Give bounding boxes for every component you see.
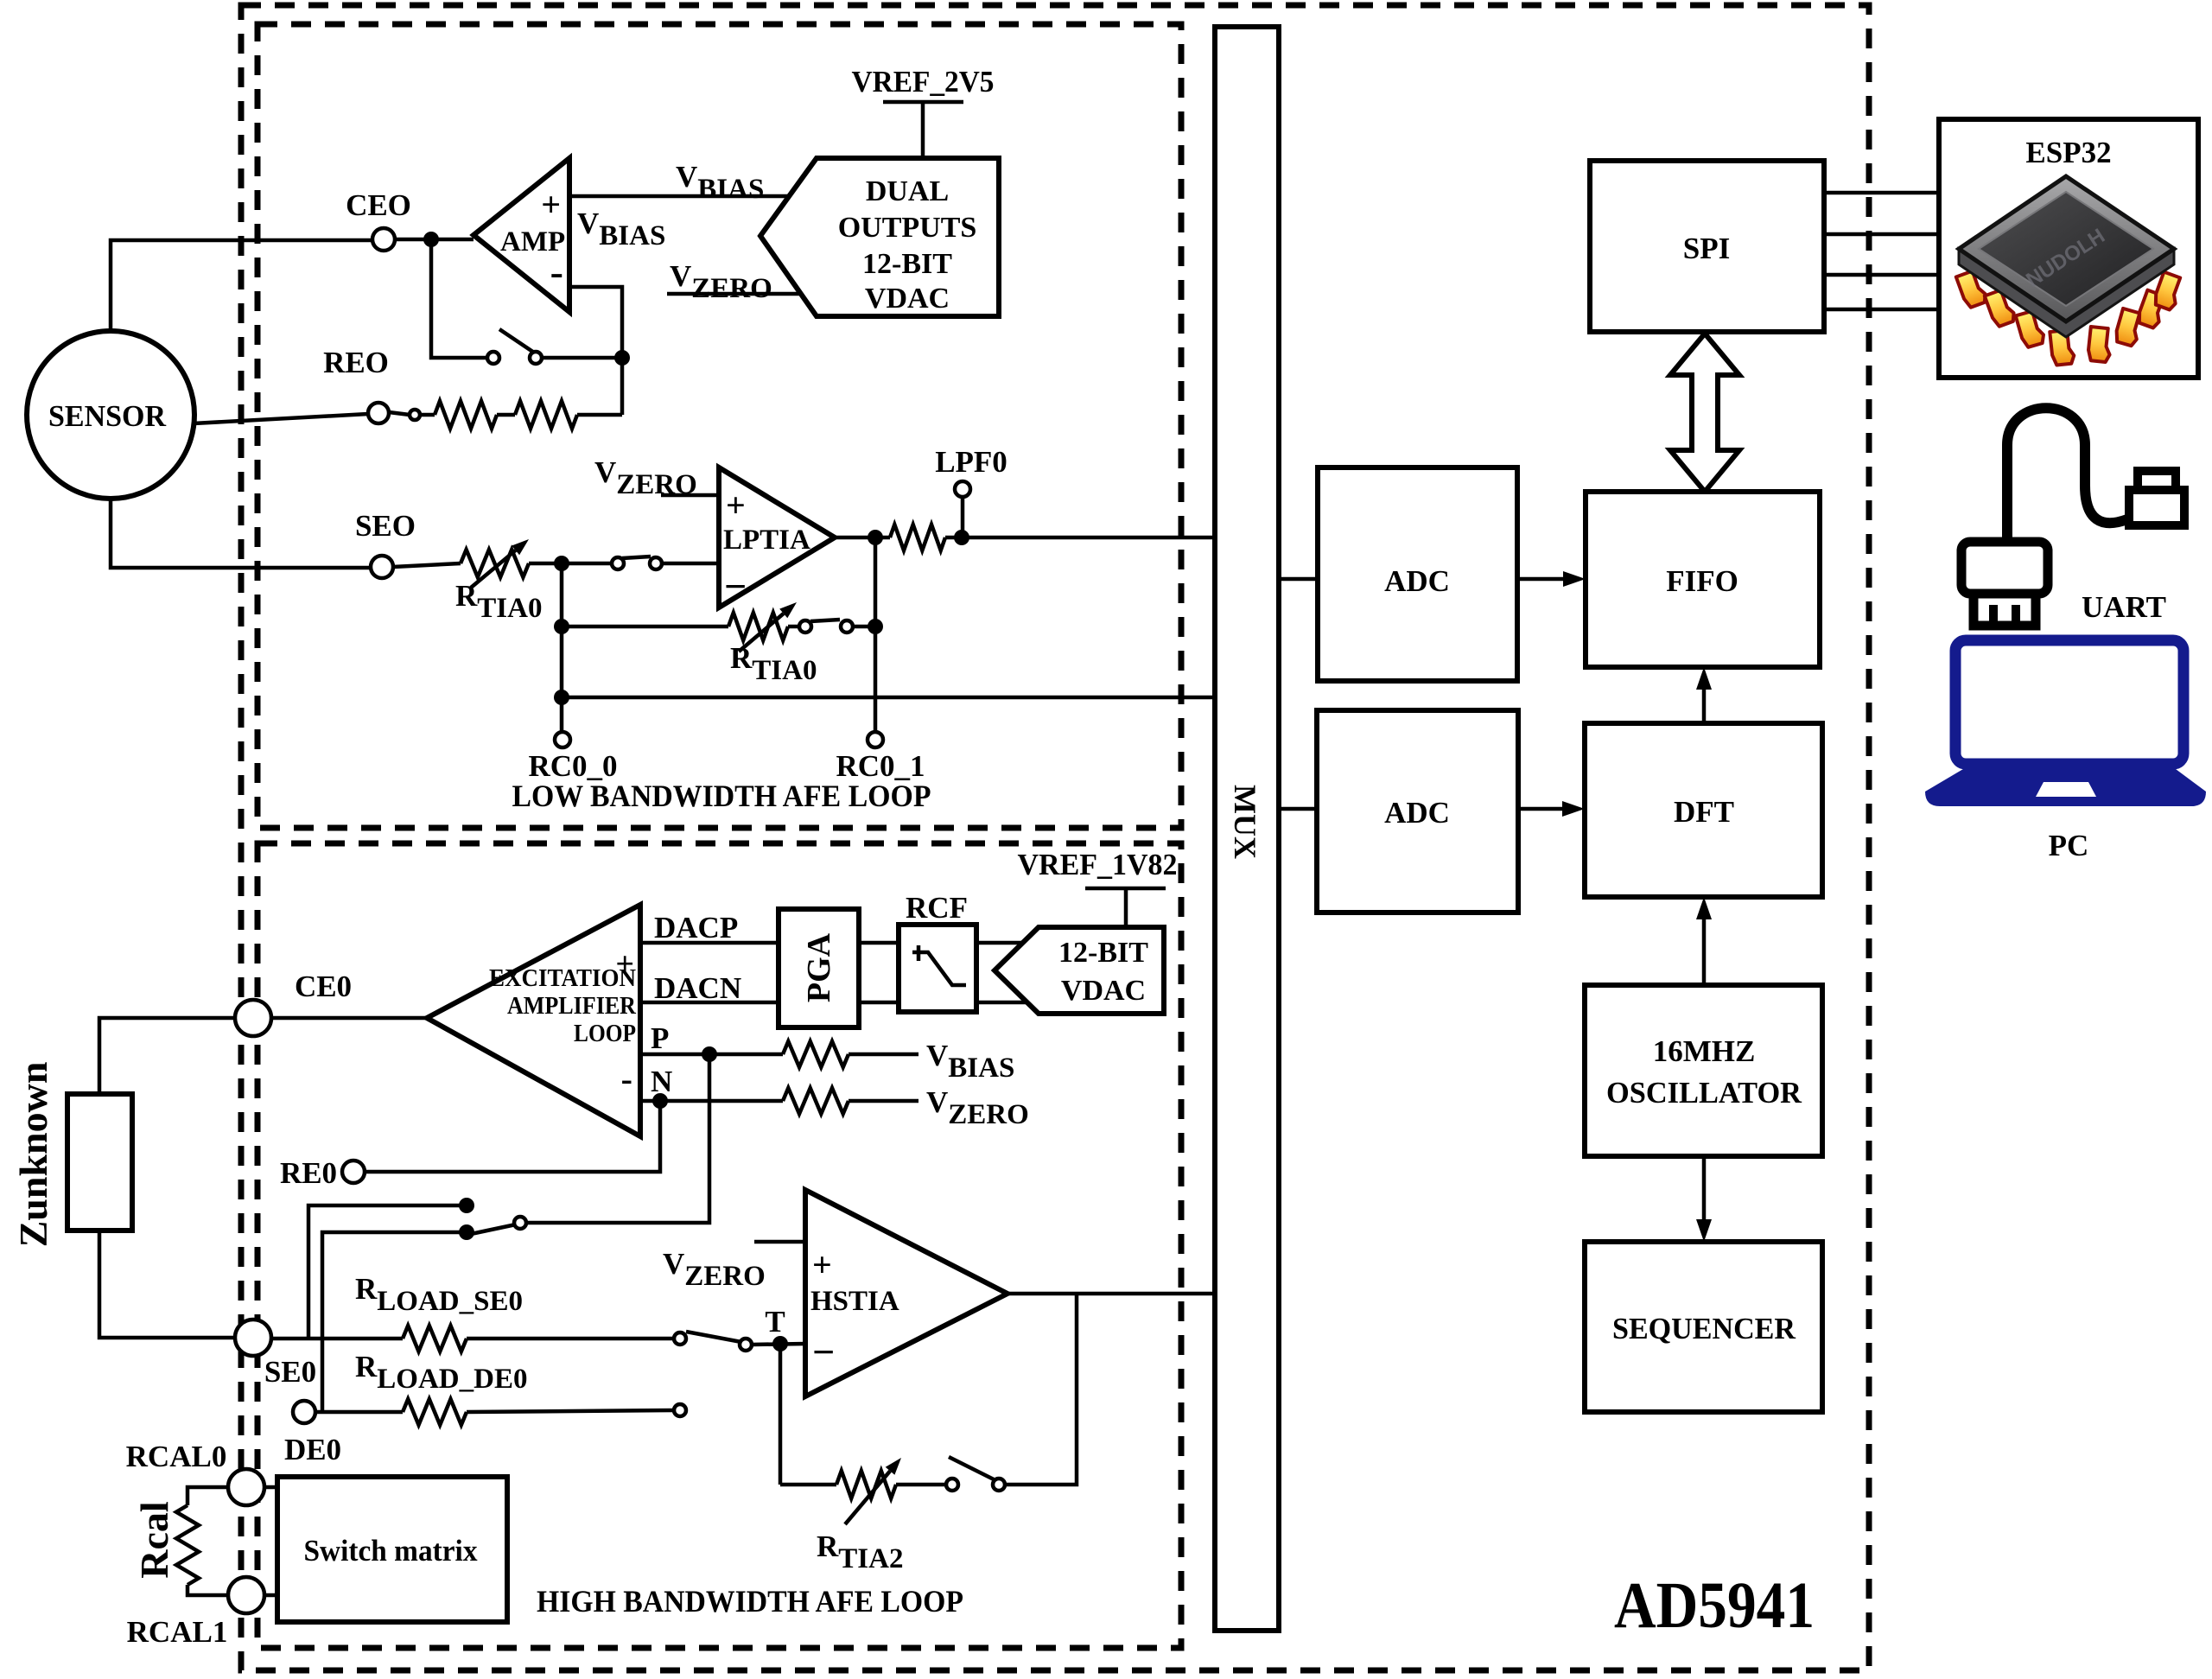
svg-text:LOOP: LOOP (574, 1020, 636, 1047)
wire switch to feedback node (542, 356, 622, 360)
wire P node to selector switch (526, 1054, 709, 1223)
svg-text:LOW BANDWIDTH AFE LOOP: LOW BANDWIDTH AFE LOOP (512, 779, 931, 813)
switch lever T (686, 1332, 741, 1342)
wire VREF_1V82 to VDAC (1124, 888, 1128, 927)
wire T to RTIA2 resistor (780, 1483, 836, 1487)
wire SPI to ESP32 line 2 (1824, 232, 1939, 237)
switch contact AMP fb a (487, 352, 499, 364)
ADC box top (1318, 467, 1517, 681)
wire AMP minus jog (569, 287, 622, 358)
op-amp HSTIA (805, 1190, 1007, 1396)
svg-text:VDAC: VDAC (1061, 975, 1146, 1007)
resistor RLOAD_DE0 (403, 1399, 467, 1425)
wire selector throw1 (308, 1205, 467, 1339)
svg-text:-: - (550, 250, 563, 294)
switch contact selector (514, 1217, 526, 1229)
svg-text:N: N (651, 1065, 672, 1098)
wire CE0 to excitation amp (272, 1016, 427, 1021)
svg-text:−: − (812, 1330, 835, 1374)
port SE0 (235, 1320, 271, 1356)
wire VREF_2V5 to VDAC (921, 102, 925, 158)
svg-text:Zunknown: Zunknown (11, 1062, 55, 1248)
wire selector throw2 (322, 1232, 467, 1412)
16MHz oscillator box (1585, 985, 1822, 1156)
svg-text:DFT: DFT (1674, 795, 1734, 829)
wire LPTIA output (835, 536, 890, 540)
node N (652, 1093, 668, 1109)
switch contact T a (674, 1332, 686, 1345)
PGA box (779, 909, 859, 1027)
wire DE0 to RLOAD_DE0 (315, 1410, 403, 1415)
svg-text:RE0: RE0 (280, 1156, 337, 1190)
op-amp excitation amplifier (427, 905, 640, 1136)
node feedback branch (554, 619, 569, 634)
wire Zunknown bottom to SE0 (99, 1231, 234, 1338)
svg-text:SEO: SEO (355, 509, 416, 543)
terminal RC0_1 (868, 732, 883, 747)
svg-text:SEQUENCER: SEQUENCER (1612, 1312, 1796, 1345)
switch contact REO (410, 410, 420, 420)
port SEO (371, 556, 393, 578)
svg-text:ADC: ADC (1384, 564, 1450, 598)
svg-text:MUX: MUX (1228, 785, 1262, 859)
svg-text:16MHZ: 16MHZ (1653, 1034, 1756, 1068)
wire feedback RTIA0 branch (562, 625, 728, 629)
svg-text:DACP: DACP (654, 911, 738, 944)
svg-text:REO: REO (323, 346, 389, 379)
wire RTIA2 switch to output vertical (1005, 1294, 1077, 1485)
high bandwidth AFE loop dashed border (257, 843, 1181, 1648)
port RE0 (342, 1161, 365, 1183)
wire RTIA0 feedback to switch (788, 625, 799, 629)
wire RCF to VDAC top (976, 941, 1033, 945)
wire AMP feedback left vertical (431, 239, 487, 358)
port RCAL1 (228, 1577, 264, 1613)
wire MUX to ADC bottom (1279, 807, 1317, 811)
switch contact DE0 (674, 1404, 686, 1416)
switch contact RTIA2 b (993, 1479, 1005, 1491)
svg-text:Rcal: Rcal (132, 1501, 176, 1578)
svg-text:RCAL0: RCAL0 (126, 1440, 227, 1473)
node AMP feedback (614, 350, 630, 366)
switch lever RTIA2 (949, 1457, 995, 1480)
wire N output (640, 1099, 783, 1103)
wire Zunknown top to CE0 (99, 1018, 234, 1094)
svg-text:SENSOR: SENSOR (48, 399, 167, 433)
wire switch to output node (853, 625, 875, 629)
FIFO box (1586, 492, 1820, 667)
svg-text:RCF: RCF (906, 891, 968, 925)
AD5941 chip dashed border (241, 5, 1869, 1670)
arrow ADC to FIFO (1517, 577, 1563, 582)
12-bit VDAC dual outputs pentagon (760, 158, 999, 316)
svg-text:LPTIA: LPTIA (723, 525, 810, 556)
switch contact LPTIA in b (650, 557, 662, 569)
svg-text:OSCILLATOR: OSCILLATOR (1606, 1076, 1802, 1110)
ADC box bottom (1317, 710, 1518, 913)
node RC line (554, 690, 569, 705)
UART cable icon (1961, 408, 2184, 626)
terminal RC0_0 (555, 732, 570, 747)
svg-text:T: T (765, 1305, 785, 1339)
svg-text:+: + (812, 1245, 832, 1284)
switch lever REO (389, 412, 410, 415)
ESP32 chip icon (1956, 176, 2184, 366)
svg-text:SPI: SPI (1683, 232, 1730, 265)
wire RCF to VDAC bottom (976, 1001, 1033, 1005)
svg-text:DE0: DE0 (284, 1433, 341, 1466)
svg-text:HIGH BANDWIDTH AFE LOOP: HIGH BANDWIDTH AFE LOOP (537, 1584, 963, 1619)
wire sensor bottom to SEO (111, 497, 371, 568)
wire RLOAD_SE0 to switch (467, 1337, 674, 1341)
svg-text:ADC: ADC (1384, 796, 1450, 830)
12-bit VDAC pentagon high BW (995, 927, 1164, 1014)
svg-text:FIFO: FIFO (1666, 564, 1738, 598)
svg-text:CEO: CEO (346, 188, 411, 222)
op-amp AMP (474, 158, 569, 312)
wire PGA to RCF top (859, 941, 899, 945)
arrow RTIA0 input variable (471, 550, 516, 588)
svg-text:-: - (621, 1059, 632, 1098)
svg-text:LPF0: LPF0 (935, 445, 1007, 479)
wire SPI to ESP32 line 3 (1824, 273, 1939, 277)
arrow oscillator to DFT (1702, 919, 1707, 985)
node selector throw2 (459, 1224, 474, 1240)
svg-text:RCAL1: RCAL1 (127, 1615, 228, 1649)
svg-text:AD5941: AD5941 (1614, 1569, 1815, 1642)
port REO (368, 403, 389, 423)
wire DACN (640, 1001, 779, 1005)
node selector throw1 (459, 1198, 474, 1213)
RCF filter box (899, 925, 976, 1012)
wire MUX to ADC top (1279, 577, 1318, 582)
node T (772, 1336, 788, 1351)
svg-text:DACN: DACN (654, 971, 741, 1005)
node LPTIA output (868, 530, 883, 545)
resistor RTIA2 (836, 1471, 896, 1498)
wire HSTIA output to MUX (1007, 1292, 1215, 1296)
wire RCAL1 to switch matrix (264, 1593, 277, 1598)
wire AMP plus input VBIAS (569, 194, 791, 199)
MUX bar (1215, 27, 1279, 1631)
arrow DFT to FIFO (1702, 690, 1707, 723)
svg-text:PC: PC (2049, 829, 2089, 862)
wire VZERO stub to LPTIA plus (661, 493, 719, 498)
wire VZERO stub into VDAC (667, 292, 804, 296)
wire feedback node down to REO resistor line (620, 358, 625, 415)
port DE0 (293, 1401, 315, 1423)
resistor VZERO (783, 1088, 849, 1114)
wire sensor to REO (194, 414, 368, 423)
wire RTIA2 to switch (896, 1483, 946, 1487)
wire REO segment 1 (420, 413, 435, 417)
svg-text:OUTPUTS: OUTPUTS (838, 212, 977, 244)
svg-text:+: + (541, 185, 561, 224)
selector switch lever (471, 1224, 516, 1234)
wire LPTIA output vertical (874, 537, 878, 732)
wire VZERO resistor out (849, 1099, 918, 1103)
switch lever RTIA0 feedback (810, 620, 840, 621)
wire RE0 to N node (365, 1101, 660, 1172)
svg-text:DUAL: DUAL (866, 175, 949, 207)
resistor Rcal (176, 1505, 199, 1585)
switch contact RTIA0 fb a (799, 620, 811, 633)
svg-text:PGA: PGA (801, 932, 837, 1002)
svg-text:VREF_1V82: VREF_1V82 (1018, 848, 1178, 881)
resistor RTIA0 feedback (728, 613, 788, 640)
switch lever LPTIA input (622, 556, 651, 558)
wire LPF0 to MUX (945, 536, 1215, 540)
svg-text:SE0: SE0 (264, 1355, 316, 1389)
wire Rcal to RCAL1 (188, 1585, 228, 1595)
low bandwidth AFE loop dashed border (257, 24, 1181, 828)
wire SPI to ESP32 line 4 (1824, 308, 1939, 312)
node SEO-RTIA0 (554, 556, 569, 571)
wire VBIAS resistor out (849, 1053, 918, 1057)
resistor RTIA0 input (461, 550, 529, 577)
resistor VBIAS (783, 1041, 849, 1067)
svg-text:ESP32: ESP32 (2025, 136, 2111, 169)
svg-text:UART: UART (2082, 590, 2166, 624)
svg-text:VDAC: VDAC (865, 283, 950, 315)
svg-text:P: P (651, 1021, 669, 1055)
wire SPI to ESP32 line 1 (1824, 191, 1939, 195)
VREF_1V82 power bar (1085, 887, 1166, 891)
port CEO (372, 228, 395, 251)
switch matrix box (277, 1477, 507, 1622)
svg-text:CE0: CE0 (295, 970, 352, 1003)
wire T node down to RTIA2 (779, 1344, 783, 1485)
wire RTIA0 to switch (529, 562, 612, 566)
arrow RTIA2 variable (845, 1471, 890, 1524)
arrow RTIA0 feedback variable (739, 614, 784, 652)
sensor circle (27, 331, 194, 499)
wire DACP (640, 941, 779, 945)
port RCAL0 (228, 1469, 264, 1505)
wire between REO resistors (497, 413, 515, 417)
DFT box (1585, 723, 1822, 897)
wire LPF0 terminal stub (961, 497, 965, 537)
resistor REO feedback 1 (435, 401, 497, 429)
switch lever AMP feedback (499, 329, 539, 356)
SPI box (1590, 161, 1824, 332)
sequencer box (1585, 1242, 1822, 1412)
resistor REO feedback 2 (515, 401, 577, 429)
wire REO resistor to node (577, 413, 622, 417)
switch contact T b (740, 1339, 752, 1351)
VREF_2V5 power bar (883, 100, 963, 105)
wire switch to LPTIA minus (662, 562, 719, 566)
PC laptop icon (1925, 640, 2206, 806)
wire PGA to RCF bottom (859, 1001, 899, 1005)
svg-text:EXCITATION: EXCITATION (489, 964, 636, 992)
switch contact RTIA0 fb b (841, 620, 853, 633)
svg-text:AMPLIFIER: AMPLIFIER (507, 992, 637, 1020)
wire VZERO stub to HSTIA plus (754, 1240, 805, 1244)
svg-text:+: + (726, 486, 746, 525)
svg-text:VREF_2V5: VREF_2V5 (852, 65, 995, 99)
resistor RLOAD_SE0 (403, 1326, 467, 1351)
double arrow SPI FIFO (1670, 334, 1739, 492)
svg-text:12-BIT: 12-BIT (1058, 937, 1148, 969)
resistor LPF0 (890, 525, 945, 550)
wire node to MUX line RC (562, 696, 1215, 700)
svg-text:−: − (724, 564, 747, 608)
switch contact LPTIA in a (612, 557, 624, 569)
node CEO-AMP (423, 232, 439, 247)
arrow oscillator to sequencer (1702, 1156, 1707, 1219)
wire LPTIA feedback vertical left (560, 563, 564, 732)
wire switch to T node (752, 1344, 805, 1345)
wire CEO to AMP output (395, 238, 474, 242)
port CE0 (235, 1000, 271, 1036)
op-amp LPTIA (719, 467, 835, 607)
arrow ADC to DFT (1518, 807, 1562, 811)
Zunknown box (67, 1094, 132, 1231)
svg-text:Switch matrix: Switch matrix (304, 1534, 478, 1568)
ESP32 box (1939, 119, 2198, 378)
switch contact RTIA2 a (946, 1479, 958, 1491)
node P (702, 1046, 717, 1062)
wire sensor top to CEO (111, 240, 372, 333)
svg-text:12-BIT: 12-BIT (862, 248, 952, 280)
wire SE0 to RLOAD_SE0 (272, 1337, 403, 1341)
wire RLOAD_DE0 to open switch (467, 1410, 674, 1412)
node LPF0 (954, 530, 969, 545)
node RTIA0 feedback out (868, 619, 883, 634)
terminal LPF0 (955, 481, 970, 497)
switch contact AMP fb b (530, 352, 542, 364)
svg-text:HSTIA: HSTIA (810, 1286, 899, 1317)
wire SEO to RTIA0 (393, 563, 461, 567)
wire RCAL0 to Rcal (188, 1487, 228, 1505)
wire RCAL0 to switch matrix (264, 1485, 277, 1490)
wire P output (640, 1053, 783, 1057)
